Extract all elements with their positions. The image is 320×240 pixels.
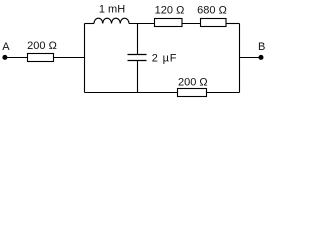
svg-text:200 Ω: 200 Ω	[27, 40, 57, 52]
svg-text:200 Ω: 200 Ω	[178, 77, 208, 89]
svg-text:120 Ω: 120 Ω	[155, 5, 185, 17]
svg-text:1 mH: 1 mH	[99, 4, 125, 16]
svg-text:A: A	[2, 41, 10, 53]
svg-text:B: B	[258, 41, 265, 53]
svg-text:2 µF: 2 µF	[152, 53, 177, 65]
svg-text:680 Ω: 680 Ω	[197, 5, 227, 17]
